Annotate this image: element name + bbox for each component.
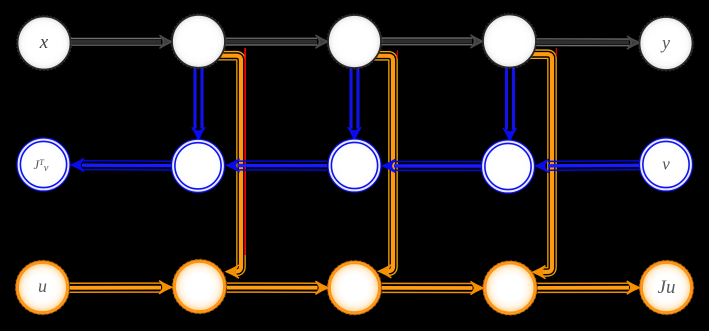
wire orange u to bot1 xyxy=(70,283,161,292)
wire black top1 to top2 xyxy=(226,38,318,45)
arrowhead orange into bot2 xyxy=(315,281,327,294)
svg-text:u: u xyxy=(38,276,47,296)
svg-text:Ju: Ju xyxy=(658,277,676,298)
red fringe line of route top1-bot1 xyxy=(244,48,246,255)
svg-text:y: y xyxy=(660,33,670,53)
wire blue vertical top2 to mid2 xyxy=(351,68,358,128)
arrowhead orange into bot2 upper right xyxy=(379,265,391,278)
arrowhead orange into bot1 upper right xyxy=(227,265,239,278)
arrowhead orange into Ju xyxy=(627,281,639,294)
arrowhead blue into JTv xyxy=(72,158,84,171)
wire black x to top1 xyxy=(71,38,161,45)
wire blue vertical top1 to mid1 xyxy=(195,68,202,129)
wire orange jvp route top3 to bot3 xyxy=(528,54,552,272)
arrowhead black into top2 xyxy=(315,35,327,48)
svg-text:v: v xyxy=(662,155,670,174)
arrowhead black into y xyxy=(627,36,639,49)
wire orange jvp route top2 to bot2 xyxy=(372,56,393,271)
node bot1 xyxy=(172,259,227,314)
arrowhead orange into bot3 upper right xyxy=(533,266,545,279)
node bot3 xyxy=(483,261,538,316)
node Ju xyxy=(639,260,694,315)
node x xyxy=(16,15,71,70)
wire orange bot2 to bot3 xyxy=(382,283,473,292)
wire orange jvp route top1 to bot1 xyxy=(216,56,241,272)
node JTv xyxy=(17,138,70,191)
red fringe corner top2 route xyxy=(396,51,398,59)
arrowhead orange into bot3 xyxy=(470,281,482,294)
node top2 xyxy=(327,14,382,69)
node top3 xyxy=(482,13,537,68)
arrowhead blue into mid1 xyxy=(227,159,239,172)
wire blue mid2 to mid1 xyxy=(238,161,327,170)
wire blue mid3 to mid2 xyxy=(394,162,481,171)
node mid3 xyxy=(482,140,535,193)
wire blue vertical top3 to mid3 xyxy=(507,68,514,130)
wire blue mid1 to JTv xyxy=(82,161,171,170)
wire black top2 to top3 xyxy=(382,38,473,45)
node top1 xyxy=(171,14,226,69)
arrowhead blue down into mid3 xyxy=(503,128,516,140)
node bot2 xyxy=(327,260,382,315)
node v xyxy=(640,138,693,191)
wire orange bot3 to Ju xyxy=(538,283,630,292)
node u xyxy=(15,260,70,315)
arrowhead blue down into mid2 xyxy=(348,127,361,139)
svg-text:x: x xyxy=(39,32,49,53)
node mid1 xyxy=(172,139,225,192)
arrowhead black into top3 xyxy=(470,35,482,48)
red fringe corner top3 route xyxy=(555,48,557,57)
arrowhead black into top1 xyxy=(159,35,171,48)
wire blue v to mid3 xyxy=(548,161,639,170)
wire black top3 to y xyxy=(537,39,630,46)
arrowhead blue down into mid1 xyxy=(192,127,205,139)
arrowhead orange into bot1 xyxy=(159,281,171,294)
node mid2 xyxy=(328,139,381,192)
arrowhead blue into mid2 xyxy=(383,159,395,172)
node y xyxy=(638,16,693,71)
arrowhead blue into mid3 xyxy=(536,159,548,172)
wire orange bot1 to bot2 xyxy=(227,283,318,292)
